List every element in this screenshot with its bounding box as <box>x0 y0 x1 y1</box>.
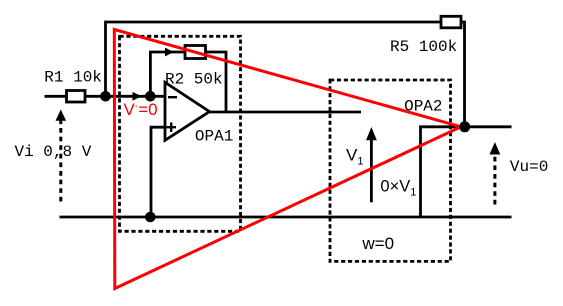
resistor R5 <box>441 16 461 28</box>
svg-text:Vu=0: Vu=0 <box>510 158 548 176</box>
node C junction dot (ground rail) <box>145 212 156 223</box>
red overlay triangle <box>114 30 461 289</box>
wire top feedback run (junction A up, across top, down to output node) <box>106 22 465 127</box>
wire output step inside OPA2 block <box>421 127 465 217</box>
current arrow on input wire <box>133 92 142 101</box>
op-amp U1 triangle <box>165 82 210 140</box>
svg-text:R1 10k: R1 10k <box>44 68 102 86</box>
wire OPA1 output run <box>210 111 362 114</box>
op-amp non-inverting input plus marker <box>167 126 177 128</box>
arrow V1 (solid, up) <box>370 139 373 202</box>
svg-text:w=0: w=0 <box>361 234 394 253</box>
node B junction dot (inverting input / R2 feedback) <box>145 91 156 102</box>
dashed box OPA1 block <box>120 36 241 231</box>
wire bottom ground rail <box>60 216 512 219</box>
wire non-inverting input to ground rail <box>151 127 165 217</box>
current arrow on feedback wire <box>165 48 174 57</box>
svg-text:R5 100k: R5 100k <box>390 38 457 56</box>
svg-text:Vi 0,8 V: Vi 0,8 V <box>15 143 92 161</box>
svg-text:R2 50k: R2 50k <box>165 70 223 88</box>
wire output to Vu terminal <box>465 125 512 128</box>
node A junction dot (input / top feedback) <box>100 91 111 102</box>
arrow Vu (dashed, up) <box>493 154 496 205</box>
node D junction dot (output node) <box>459 121 470 132</box>
source arrow Vi (dashed, up) <box>59 120 62 202</box>
wire R2 feedback loop <box>150 52 226 112</box>
resistor R2 <box>185 46 206 59</box>
svg-text:OPA1: OPA1 <box>195 127 233 145</box>
svg-text:V-=0: V-=0 <box>124 100 158 119</box>
dashed box OPA2 block <box>330 80 451 261</box>
wire input horizontal from source to op-amp inverting input <box>45 95 166 98</box>
resistor R1 <box>67 91 86 103</box>
op-amp inverting input minus marker <box>168 96 177 98</box>
